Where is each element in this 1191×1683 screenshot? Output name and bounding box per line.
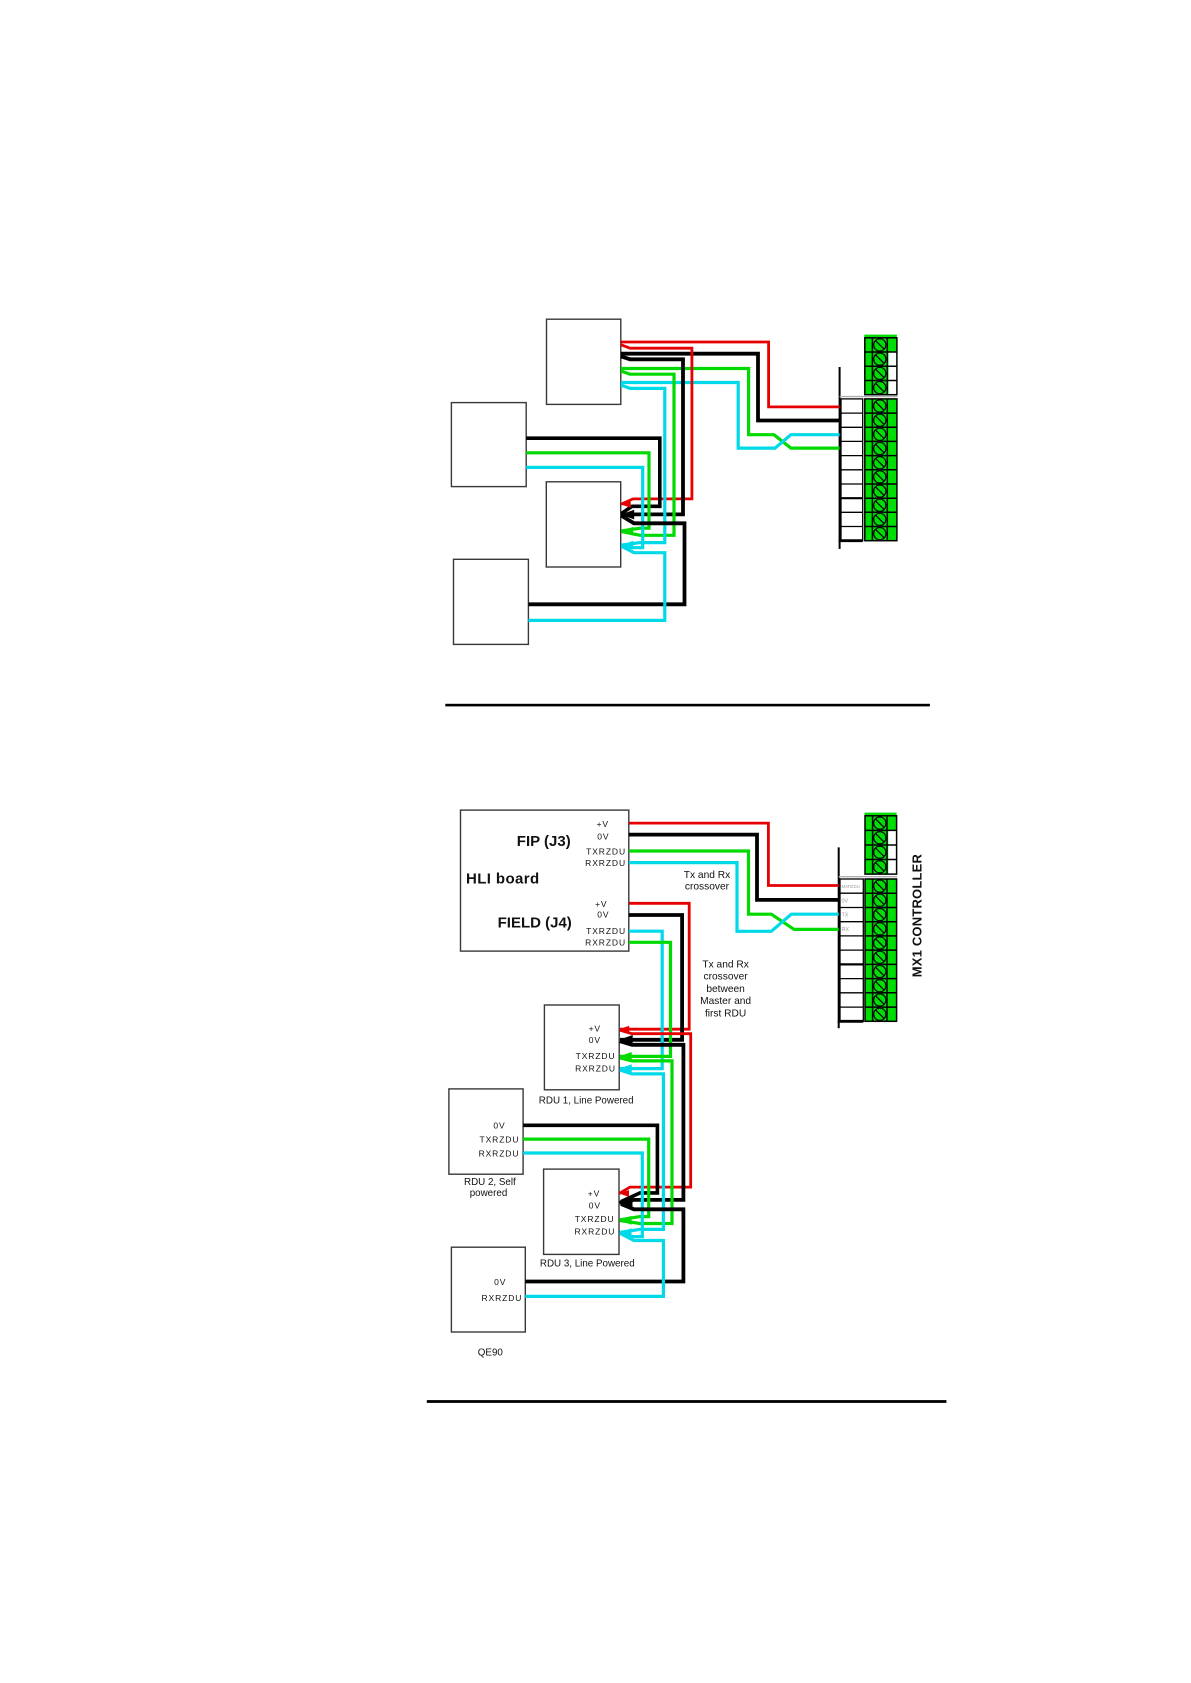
- svg-text:RDU 3, Line Powered: RDU 3, Line Powered: [540, 1259, 635, 1270]
- svg-text:TXRZDU: TXRZDU: [586, 846, 626, 856]
- svg-text:+V: +V: [588, 1188, 600, 1198]
- svg-text:MX1 CONTROLLER: MX1 CONTROLLER: [910, 853, 925, 977]
- svg-text:RXRZDU: RXRZDU: [585, 858, 626, 868]
- fig1 terminal rail line: [839, 367, 841, 549]
- box U1 (master FIP/FIELD board, unlabelled): [547, 319, 621, 404]
- wire FIELD TXRZDU bus to RDU1 RX (cyan): [620, 931, 662, 1068]
- svg-text:0V: 0V: [494, 1277, 506, 1287]
- svg-text:0V: 0V: [842, 898, 849, 904]
- svg-text:between: between: [706, 984, 745, 995]
- wire RDU2 0V to RDU3 (black): [523, 1125, 657, 1201]
- fig2 lower green connector section: [865, 879, 897, 1021]
- wire TX tap RDU1 to RDU3 (green): [620, 1058, 672, 1224]
- fig1 strip bottom bar: [839, 539, 863, 542]
- pin arrow U3 TX (green): [621, 527, 634, 536]
- svg-text:TX: TX: [842, 913, 849, 919]
- svg-text:RXRZDU: RXRZDU: [479, 1148, 520, 1158]
- svg-text:TXRZDU: TXRZDU: [576, 1051, 616, 1061]
- wire FIP 0V to MX1 row2 (black): [629, 835, 839, 900]
- wire FIELD 0V bus to RDU1 (black): [620, 915, 682, 1040]
- wire FIP TXRZDU to MX1 RX row via crossover (green): [629, 851, 839, 929]
- wire +V tap RDU1 to RDU3 (red): [619, 1030, 691, 1193]
- box U4 (field panel, unlabelled): [454, 559, 529, 644]
- wire TX U1 J3 to terminal row4 via crossover (green): [621, 369, 840, 449]
- wire +V U1 J3 to terminal row1 (red): [621, 342, 840, 407]
- pin arrow U3 0V (black): [621, 510, 635, 520]
- svg-text:TXRZDU: TXRZDU: [575, 1214, 615, 1224]
- svg-text:0V: 0V: [589, 1200, 601, 1210]
- box RDU 1 Line Powered: [544, 1005, 619, 1090]
- svg-text:0V: 0V: [597, 910, 609, 920]
- fig1 upper green connector section: [864, 335, 897, 395]
- wire 0V tap U3 to U4 (black): [528, 516, 684, 605]
- pin arrow RDU3 RXRZDU (cyan): [619, 1228, 632, 1237]
- wire +V U1 J4 bus to U3 (red): [621, 345, 692, 505]
- wire RX U2 to U3 (cyan): [526, 467, 643, 547]
- box QE90: [451, 1247, 525, 1332]
- svg-text:RDU 1, Line Powered: RDU 1, Line Powered: [539, 1096, 634, 1107]
- pin arrow RDU1 +V (red): [619, 1026, 629, 1033]
- svg-text:FIP (J3): FIP (J3): [517, 833, 571, 850]
- svg-text:0V: 0V: [493, 1121, 505, 1131]
- wire FIELD RXRZDU bus to RDU1 TX (green): [620, 942, 671, 1056]
- wire RX tap U3 to U4 (cyan): [528, 546, 664, 620]
- svg-text:RX: RX: [842, 927, 850, 933]
- svg-text:RXRZDU: RXRZDU: [481, 1293, 522, 1303]
- wire RDU2 RXRZDU to RDU3 (cyan): [523, 1153, 642, 1237]
- svg-text:+V: +V: [597, 819, 609, 829]
- pin arrow RDU1 RXRZDU (cyan): [619, 1064, 632, 1073]
- box U3 (line-powered unit, unlabelled): [546, 482, 620, 567]
- pin arrow U3 +V (red): [621, 501, 631, 508]
- svg-text:QE90: QE90: [478, 1348, 504, 1359]
- pin arrow RDU3 +V (red): [619, 1190, 629, 1197]
- wire 0V U1 J3 to terminal row2 (black): [621, 354, 840, 421]
- fig2 terminal rail line: [838, 847, 840, 1028]
- svg-text:crossover: crossover: [685, 881, 730, 892]
- box RDU 3 Line Powered: [544, 1169, 619, 1254]
- svg-text:HLI board: HLI board: [466, 871, 540, 888]
- svg-text:Master and: Master and: [700, 996, 751, 1007]
- svg-text:powered: powered: [470, 1188, 508, 1199]
- svg-text:Tx and Rx: Tx and Rx: [702, 960, 748, 971]
- wire 0V tap RDU3 to QE90 (black): [525, 1204, 683, 1282]
- fig1 white pin strip: [841, 399, 863, 541]
- wire RDU2 TXRZDU to RDU3 (green): [523, 1139, 649, 1220]
- box RDU 2 Self powered: [449, 1089, 523, 1174]
- fig1 section separator: [840, 396, 898, 398]
- wire TX U1 J4 bus to U3 (green): [621, 371, 674, 535]
- fig2 section separator: [839, 876, 897, 878]
- svg-text:RXRZDU: RXRZDU: [575, 1063, 616, 1073]
- fig1 lower green connector section: [864, 399, 897, 541]
- svg-text:RXRZDU: RXRZDU: [585, 938, 626, 948]
- box U2 (self-powered unit, unlabelled): [451, 403, 526, 487]
- svg-text:FIELD (J4): FIELD (J4): [498, 915, 572, 932]
- wire FIP +V to MX1 row1 (red): [629, 823, 839, 885]
- fig2 strip pin labels: [842, 884, 860, 933]
- wire RX tap RDU1 to RDU3 (cyan): [620, 1070, 664, 1232]
- wire 0V tap RDU1 to RDU3 (black): [620, 1041, 684, 1203]
- wire RX U1 J4 bus to U3 (cyan): [621, 385, 665, 545]
- wire RX U1 J3 to terminal row3 via crossover (cyan): [621, 383, 840, 449]
- svg-text:TXRZDU: TXRZDU: [586, 926, 626, 936]
- svg-text:+V: +V: [589, 1023, 601, 1033]
- wire 0V U2 to U3 (black): [526, 438, 660, 513]
- pin arrow RDU1 TXRZDU (green): [619, 1052, 632, 1061]
- pin arrow RDU1 0V (black): [619, 1035, 633, 1045]
- svg-text:0V: 0V: [597, 831, 609, 841]
- wire FIELD +V bus to RDU1 (red): [620, 903, 689, 1029]
- svg-text:first RDU: first RDU: [705, 1008, 746, 1019]
- svg-text:MXRZDU: MXRZDU: [842, 884, 860, 889]
- wire RX tap RDU3 to QE90 (cyan): [525, 1234, 663, 1297]
- horizontal rule under figure 2: [427, 1400, 947, 1403]
- svg-text:0V: 0V: [589, 1035, 601, 1045]
- pin arrow RDU3 0V (black): [619, 1198, 633, 1208]
- pin arrow U3 RX (cyan): [621, 541, 634, 550]
- wire 0V U1 J4 bus to U3 (black): [621, 356, 683, 514]
- wire FIP RXRZDU to MX1 TX row via crossover (cyan): [629, 863, 839, 932]
- svg-text:crossover: crossover: [704, 972, 749, 983]
- fig2 white pin strip: [840, 879, 863, 1021]
- pin arrow RDU3 TXRZDU (green): [619, 1216, 632, 1225]
- wire TX U2 to U3 (green): [526, 453, 649, 531]
- box HLI board: [461, 810, 629, 951]
- svg-text:RDU 2, Self: RDU 2, Self: [464, 1177, 516, 1188]
- svg-text:Tx and Rx: Tx and Rx: [684, 870, 730, 881]
- svg-text:RXRZDU: RXRZDU: [574, 1226, 615, 1236]
- horizontal rule under figure 1: [445, 704, 930, 707]
- fig2 upper green connector section: [865, 813, 897, 875]
- svg-text:TXRZDU: TXRZDU: [480, 1134, 520, 1144]
- svg-text:+V: +V: [595, 899, 607, 909]
- fig2 strip bottom bar: [838, 1020, 864, 1023]
